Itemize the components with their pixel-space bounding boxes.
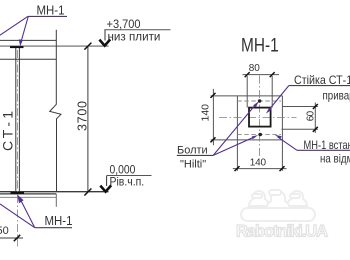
bolt dot bottom (258, 133, 262, 137)
svg-text:Rabotniki.UA: Rabotniki.UA (236, 223, 328, 241)
140 bottom dim line (233, 168, 287, 170)
MN-1 vst underline (297, 149, 350, 151)
svg-text:Рів.ч.п.: Рів.ч.п. (110, 176, 145, 189)
MN-1 top label underline (28, 15, 67, 17)
level mark underline (104, 29, 170, 31)
MN-1 top leader to plate (21, 16, 29, 42)
svg-text:приварити: приварити (323, 90, 350, 103)
Bolty top arrowhead (253, 101, 259, 107)
80 dim ext right (271, 76, 273, 108)
svg-text:МН-1: МН-1 (45, 213, 73, 228)
MN-1 bottom label underline (35, 227, 72, 229)
floor second line (0, 193, 56, 195)
plate left edge / ext (236, 96, 238, 171)
column right edge (18, 48, 20, 192)
column tube section (249, 108, 271, 127)
beam end vertical with break (50, 30, 61, 192)
MN-1 vst leader (278, 137, 298, 151)
80 right tick (270, 72, 275, 77)
svg-text:50: 50 (0, 225, 9, 237)
Stiyka leader (269, 86, 289, 110)
dim ticks plan (211, 72, 318, 171)
svg-text:80: 80 (249, 63, 261, 74)
80 dim ext left (246, 76, 248, 108)
140 bottom right tick (280, 166, 285, 171)
Bolty leader to top bolt (213, 104, 256, 156)
140 bottom left tick (235, 166, 240, 171)
Stiyka underline (289, 85, 350, 87)
svg-text:на відмітці: на відмітці (320, 153, 350, 166)
80 dim line (243, 74, 280, 76)
MN-1 bottom leader arrowhead (17, 194, 23, 203)
plate bottom edge (211, 139, 283, 141)
plan centerline horizontal (219, 117, 297, 119)
Bolty underline (177, 154, 213, 156)
MN-1 top leader to left (0, 16, 28, 35)
svg-text:СТ-1: СТ-1 (0, 111, 16, 151)
3700 dimension line (87, 46, 89, 192)
60 bottom tick (313, 127, 318, 132)
base plate (11, 192, 25, 194)
3700 dim tick top (84, 43, 91, 50)
MN-1 bottom leader to base (20, 199, 35, 228)
level mark arrow (99, 39, 110, 45)
plate top edge (211, 95, 283, 97)
140 left dim line (212, 89, 214, 145)
plate right edge / ext (281, 96, 283, 171)
svg-text:МН-1: МН-1 (37, 3, 65, 18)
svg-text:низ плити: низ плити (108, 30, 161, 44)
bolt hidden row top (237, 100, 281, 102)
Bolty leader to bottom bolt (213, 137, 255, 156)
Stiyka arrowhead (266, 108, 272, 114)
level mark arrow (100, 185, 111, 191)
bolt dot top (258, 99, 262, 103)
svg-text:"Hilti": "Hilti" (180, 158, 206, 170)
svg-text:60: 60 (306, 110, 317, 121)
column centerline (17, 50, 19, 247)
floor level line (0, 191, 109, 193)
140 left top tick (211, 93, 216, 98)
Bolty bottom arrowhead (252, 135, 259, 139)
svg-text:140: 140 (200, 104, 212, 122)
MN-1 top leader arrowhead (19, 39, 23, 46)
level mark stem (104, 30, 106, 41)
svg-text:0,000: 0,000 (110, 164, 136, 177)
svg-text:3700: 3700 (76, 101, 90, 131)
plan centerline vertical (259, 76, 261, 157)
60 dim line (314, 103, 316, 134)
50 dim tick (14, 235, 20, 241)
MN-1 vst arrowhead (275, 135, 282, 139)
140 left bottom tick (211, 137, 216, 142)
floor lower gray line (0, 196, 56, 198)
level line +3.700 (0, 45, 109, 47)
svg-text:МН-1: МН-1 (241, 34, 279, 56)
column left edge (15, 48, 17, 192)
60 top tick (313, 104, 318, 109)
top plate (10, 46, 24, 48)
80 left tick (245, 72, 250, 77)
60 dim ext top (282, 106, 318, 108)
floor edge vertical (55, 194, 57, 207)
60 dim ext bottom (282, 128, 318, 130)
svg-text:Стійка СТ-1: Стійка СТ-1 (294, 74, 350, 86)
beam top line (0, 39, 56, 41)
MN-1 bottom leader to left (0, 204, 35, 228)
50 dim line (0, 237, 23, 239)
watermark workers icon (241, 190, 315, 221)
beam bottom line (0, 58, 56, 60)
svg-text:140: 140 (250, 157, 267, 168)
3700 dim tick bottom (84, 189, 91, 196)
bolt hidden row bottom (237, 133, 281, 135)
level mark underline (107, 175, 152, 177)
level mark stem (106, 176, 108, 187)
svg-text:Болти: Болти (177, 144, 208, 156)
